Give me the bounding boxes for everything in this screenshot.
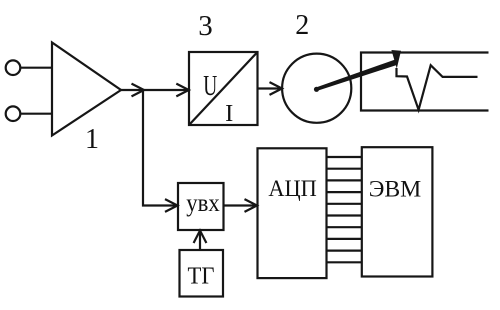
wire TG to UVH — [199, 231, 201, 250]
wire branch down to UVH — [143, 90, 176, 206]
amplifier 1 — [52, 43, 121, 136]
bus line 8 — [327, 238, 362, 240]
arrowhead into U/I — [176, 84, 189, 97]
svg-text:2: 2 — [295, 10, 309, 41]
bus line 2 — [327, 168, 362, 170]
arrowhead into UVH — [165, 199, 178, 212]
svg-text:1: 1 — [85, 124, 99, 155]
svg-text:3: 3 — [198, 10, 213, 42]
galvanometer 2 — [282, 54, 351, 123]
ADC ACP — [258, 148, 327, 278]
chart recorder box — [361, 53, 489, 111]
input terminal bottom — [6, 106, 21, 121]
computer EVM — [362, 147, 433, 276]
arrowhead into ADC — [245, 199, 258, 212]
wire UVH to ADC — [224, 204, 257, 206]
pen nib — [391, 50, 401, 69]
svg-text:АЦП: АЦП — [268, 176, 317, 202]
svg-text:ЭВМ: ЭВМ — [369, 177, 422, 203]
wire amplifier to U/I — [121, 89, 188, 91]
svg-text:ТГ: ТГ — [188, 263, 215, 290]
U/I converter 3 — [189, 52, 258, 125]
wire input bottom — [20, 113, 52, 115]
arrowhead mid — [132, 84, 145, 97]
bus line 3 — [327, 179, 362, 181]
bus line 6 — [327, 214, 362, 216]
svg-text:увх: увх — [186, 190, 220, 217]
bus line 1 — [327, 156, 362, 158]
bus line 7 — [327, 226, 362, 228]
input terminal top — [6, 60, 21, 75]
svg-text:U: U — [203, 71, 217, 102]
wire U/I to galvanometer — [258, 87, 282, 89]
pen pivot — [314, 87, 319, 92]
bus line 4 — [327, 191, 362, 193]
U/I diagonal — [189, 52, 258, 125]
pen arm — [316, 59, 397, 91]
arrowhead into galvanometer — [270, 82, 283, 95]
bus line 10 — [327, 261, 362, 263]
bus line 5 — [327, 203, 362, 205]
waveform trace — [397, 65, 478, 110]
wire input top — [20, 67, 52, 69]
bus line 9 — [327, 250, 362, 252]
sample-hold UVH — [178, 183, 224, 230]
arrowhead up into UVH — [194, 231, 207, 244]
clock generator TG — [180, 250, 224, 297]
svg-text:I: I — [225, 100, 233, 127]
